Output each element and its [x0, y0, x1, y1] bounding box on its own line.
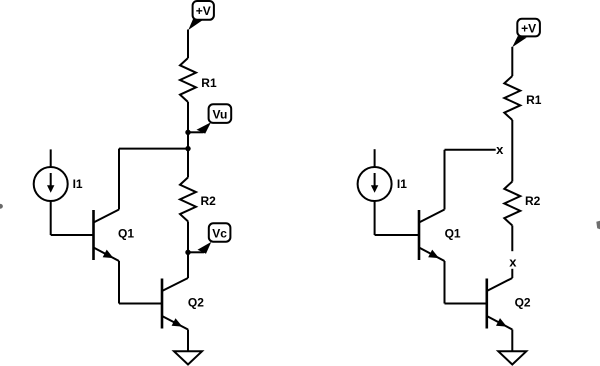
- wire R2 bottom lead: [187, 221, 189, 252]
- node Vc junction dot: [185, 250, 190, 255]
- svg-text:Vc: Vc: [212, 226, 227, 240]
- edge artifact (left): [0, 204, 3, 209]
- wire +V to R1 (left): [187, 30, 189, 59]
- wire +V to R1 (right): [511, 47, 513, 76]
- wire I1 top stub (right): [374, 149, 376, 167]
- wire Q1 collector vertical: [118, 149, 120, 210]
- current source I1: [34, 167, 83, 201]
- svg-text:+V: +V: [521, 21, 536, 35]
- wire to Q2 base (right): [445, 303, 487, 305]
- wire Q2 emitter to ground (right): [511, 330, 513, 352]
- svg-text:R1: R1: [201, 76, 217, 90]
- wire I1 top stub: [50, 149, 52, 167]
- resistor R2 (left): [180, 177, 216, 221]
- svg-text:Q2: Q2: [515, 296, 531, 310]
- svg-text:Q2: Q2: [188, 296, 204, 310]
- wire Q1 emitter down: [118, 261, 120, 304]
- transistor Q2: [487, 278, 531, 330]
- power flag +V (left): [188, 1, 214, 30]
- svg-text:R2: R2: [525, 194, 541, 208]
- wire I1 to Q1 base (right): [375, 201, 419, 236]
- wire Q2 emitter to ground: [187, 330, 189, 352]
- wire R1 to node Vu: [187, 102, 189, 132]
- wire stub to Vu flag: [188, 131, 204, 133]
- svg-text:x: x: [496, 142, 504, 157]
- transistor Q1: [94, 210, 135, 262]
- power flag +V (right): [512, 19, 540, 48]
- ground (right): [498, 351, 526, 364]
- resistor R1 (left): [180, 58, 217, 102]
- svg-text:Q1: Q1: [118, 227, 134, 241]
- svg-text:Q1: Q1: [445, 227, 461, 241]
- wire Q1 collector horizontal to x: [445, 149, 496, 151]
- wire to Q2 base: [119, 303, 162, 305]
- resistor R1 (right): [504, 76, 541, 120]
- node flag Vu: [197, 104, 232, 133]
- wire Vc node to Q2 collector: [187, 252, 189, 278]
- node flag Vc: [198, 223, 231, 254]
- wire Q2 collector stub below x: [511, 269, 513, 278]
- wire Q1 collector vertical (right): [444, 150, 446, 210]
- wire R2 bottom lead (right): [511, 226, 513, 252]
- current source I1: [358, 167, 408, 201]
- svg-text:+V: +V: [196, 4, 211, 18]
- svg-text:R1: R1: [526, 93, 542, 107]
- transistor Q2: [162, 278, 204, 330]
- wire Q1 emitter down (right): [444, 261, 446, 304]
- resistor R2 (right): [504, 182, 540, 226]
- svg-text:x: x: [509, 254, 517, 269]
- wire Vu node to collector node: [187, 132, 189, 148]
- wire R2 top lead: [187, 149, 189, 178]
- edge artifact: [596, 221, 600, 230]
- node Vu junction dot: [185, 130, 190, 135]
- wire R1 to R2 (right rail): [511, 120, 513, 182]
- svg-text:I1: I1: [397, 177, 407, 191]
- svg-text:R2: R2: [201, 194, 217, 208]
- svg-text:I1: I1: [73, 177, 83, 191]
- wire stub to Vc flag: [188, 251, 204, 253]
- ground (left): [174, 351, 202, 364]
- wire I1 to Q1 base: [51, 201, 94, 236]
- svg-text:Vu: Vu: [212, 107, 227, 121]
- wire horizontal to Q1 collector: [119, 148, 188, 150]
- transistor Q1: [419, 210, 461, 262]
- junction dot (collector tie): [185, 146, 190, 151]
